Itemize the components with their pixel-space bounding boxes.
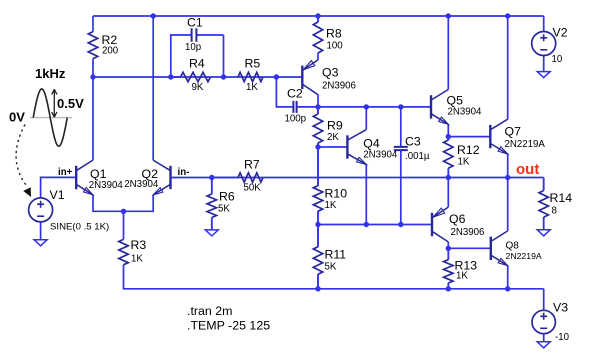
model of Q7 (505, 139, 546, 150)
model of Q5 (448, 107, 483, 118)
net label in- (178, 167, 190, 178)
svg-text:R5: R5 (245, 57, 261, 71)
value of R14 (552, 206, 557, 217)
capacitor C1 (192, 28, 197, 42)
resistor R5 (238, 72, 263, 81)
capacitor C2 (293, 101, 296, 113)
wire V2 leads (543, 16, 545, 72)
amplitude arrow 0.5V (52, 89, 57, 117)
resistor R8 (313, 16, 322, 53)
svg-text:1K: 1K (131, 254, 143, 265)
svg-text:R4: R4 (189, 57, 205, 71)
wire C3 leads (400, 107, 402, 225)
wire R9 leads (317, 107, 319, 147)
voltage source V2 (532, 32, 556, 56)
wire R11 leads (317, 225, 319, 289)
wire Q7 base (448, 136, 490, 138)
svg-text:50K: 50K (244, 183, 262, 194)
svg-text:.tran 2m: .tran 2m (187, 304, 232, 318)
label R3 (131, 238, 147, 252)
svg-text:out: out (516, 161, 539, 178)
wire Q8 collector to out (507, 178, 509, 231)
resistor R10 (313, 147, 322, 225)
model of Q2 (124, 179, 159, 190)
wire Q2 emitter to tail node (124, 195, 154, 211)
junction node R9-R10-Q4b (315, 144, 320, 149)
svg-text:10: 10 (552, 54, 563, 65)
junction node Q8e-bottom (505, 286, 510, 291)
resistor R12 (444, 137, 453, 178)
ground at R14 (537, 230, 550, 236)
svg-text:R6: R6 (219, 190, 235, 204)
value of R4 (192, 82, 204, 93)
wire Q3 emitter to R8 (317, 53, 319, 60)
voltage source V3 (532, 310, 555, 333)
wire R10 leads (317, 147, 319, 225)
svg-text:0.5V: 0.5V (57, 96, 84, 111)
wire Q6 emitter to out (447, 178, 449, 208)
wire bottom rail (124, 265, 544, 289)
svg-text:R12: R12 (457, 143, 480, 157)
wire Q6 collector (447, 242, 449, 248)
wire bias node row (318, 224, 432, 226)
wire Q4 emitter (365, 164, 367, 224)
svg-text:C2: C2 (287, 87, 303, 101)
wire R6 leads (211, 178, 213, 230)
junction node C3-bias (398, 222, 403, 227)
ground at V3 (537, 342, 550, 348)
net label out (516, 161, 539, 178)
sine zero axis line (30, 117, 72, 119)
label C3 (405, 135, 421, 149)
capacitor C3 (394, 147, 408, 150)
label Q2 (142, 167, 159, 181)
annotation 1kHz (35, 66, 66, 81)
wire R8 top lead (317, 16, 319, 22)
annotation 0.5V (57, 96, 84, 111)
label R12 (457, 143, 480, 157)
svg-text:.TEMP -25 125: .TEMP -25 125 (187, 319, 270, 333)
svg-text:8: 8 (552, 206, 557, 217)
value of R3 (131, 254, 143, 265)
svg-text:.001µ: .001µ (405, 151, 430, 162)
label Q6 (449, 212, 466, 226)
wire V3 leads (543, 289, 545, 342)
svg-text:2N3904: 2N3904 (363, 150, 398, 161)
svg-text:R10: R10 (325, 187, 348, 201)
junction node out-Q7e-Q8c (505, 175, 510, 180)
value of V2 (552, 54, 563, 65)
svg-text:R11: R11 (325, 248, 347, 262)
resistor R7 (212, 173, 263, 182)
ground at R6 (205, 230, 218, 236)
pnp transistor Q6 (432, 207, 448, 242)
value of R2 (102, 46, 119, 57)
label R11 (325, 248, 347, 262)
wire R14 branch (543, 178, 545, 230)
svg-text:R7: R7 (244, 158, 260, 172)
junction node in--R6 (209, 175, 214, 180)
wire Q4 base (318, 146, 347, 148)
svg-text:100p: 100p (285, 114, 307, 125)
model of Q6 (451, 227, 485, 238)
label C1 (187, 16, 203, 30)
svg-text:Q7: Q7 (505, 125, 522, 139)
wire row2 to Q5 base (297, 106, 431, 108)
svg-text:5K: 5K (218, 204, 230, 215)
svg-text:R8: R8 (326, 27, 342, 41)
svg-text:2K: 2K (327, 132, 339, 143)
value of R7 (244, 183, 262, 194)
value of R11 (325, 262, 337, 273)
svg-text:V2: V2 (553, 26, 568, 40)
model of Q4 (363, 150, 398, 161)
model of Q8 (506, 251, 542, 261)
svg-text:2N3904: 2N3904 (124, 179, 159, 190)
svg-text:9K: 9K (192, 82, 204, 93)
svg-text:in-: in- (178, 167, 190, 178)
junction node tail-R3 (121, 209, 126, 214)
value of C1 (185, 42, 201, 53)
label R7 (244, 158, 260, 172)
svg-text:2N2219A: 2N2219A (505, 139, 546, 150)
value of R6 (218, 204, 230, 215)
wire out row (171, 177, 544, 179)
spice directive .TEMP (187, 319, 270, 333)
value of C3 (405, 151, 430, 162)
resistor R3 (119, 211, 128, 264)
label Q5 (447, 94, 464, 108)
npn transistor Q4 (347, 130, 366, 165)
label V1 (50, 188, 65, 202)
resistor R9 (313, 107, 322, 147)
svg-text:SINE(0 .5 1K): SINE(0 .5 1K) (50, 222, 109, 233)
wire Q7 collector to rail (507, 16, 509, 119)
junction node R11-bottom (315, 286, 320, 291)
npn transistor Q1 (76, 160, 93, 195)
svg-text:2N3906: 2N3906 (322, 81, 356, 92)
resistor R14 (539, 178, 548, 230)
svg-text:C1: C1 (187, 16, 203, 30)
resistor R13 (444, 248, 453, 288)
value of V1 (50, 222, 109, 233)
svg-text:2N3906: 2N3906 (451, 227, 485, 238)
label Q8 (506, 241, 520, 252)
svg-text:Q8: Q8 (506, 241, 520, 252)
svg-text:V3: V3 (553, 301, 568, 315)
svg-text:200: 200 (102, 46, 119, 57)
pnp transistor Q3 (302, 60, 318, 95)
svg-text:-10: -10 (555, 332, 570, 343)
label R10 (325, 187, 348, 201)
junction node rail-Q2c (151, 13, 156, 18)
junction node C1R-R5 (221, 74, 226, 79)
wire V1 to in+ node (41, 177, 77, 198)
svg-text:5K: 5K (325, 262, 337, 273)
value of R8 (327, 41, 344, 52)
value of R9 (327, 132, 339, 143)
junction node out-R12-Q6e (446, 175, 451, 180)
junction node R5-C2-Q3b (274, 74, 279, 79)
label Q1 (90, 167, 107, 181)
svg-text:in+: in+ (58, 167, 73, 178)
ground at V2 (537, 72, 550, 78)
wire C2 left branch (276, 77, 293, 107)
npn transistor Q5 (431, 90, 448, 125)
resistor R4 (171, 72, 211, 81)
voltage source V1 (29, 198, 53, 222)
wire Q4 collector (365, 107, 367, 130)
svg-text:1K: 1K (456, 271, 468, 282)
junction node rail-R8 (315, 13, 320, 18)
label R9 (327, 119, 343, 133)
wire Q1 emitter to tail node (93, 195, 124, 211)
spice directive .tran (187, 304, 232, 318)
label Q7 (505, 125, 522, 139)
npn transistor Q8 (491, 231, 508, 266)
junction node rail-Q7c (505, 13, 510, 18)
junction node Q4c-row2 (364, 104, 369, 109)
value of R12 (458, 157, 470, 168)
junction node Q6c-R13-Q8b (446, 246, 451, 251)
label R2 (102, 33, 118, 47)
label R14 (550, 191, 573, 205)
dashed arrow to V1 (16, 125, 30, 197)
svg-text:1K: 1K (458, 157, 470, 168)
label R5 (245, 57, 261, 71)
wire V1 bottom lead (40, 222, 42, 240)
label Q4 (363, 137, 380, 151)
value of R13 (456, 271, 468, 282)
value of V3 (555, 332, 570, 343)
svg-text:R3: R3 (131, 238, 147, 252)
svg-text:Q4: Q4 (363, 137, 380, 151)
junction node rail-Q5c (446, 13, 451, 18)
resistor R11 (313, 225, 322, 289)
svg-text:Q3: Q3 (322, 66, 339, 80)
resistor R6 (207, 178, 216, 230)
svg-text:100: 100 (327, 41, 344, 52)
ground at V1 (34, 240, 47, 246)
value of C2 (285, 114, 307, 125)
svg-text:1K: 1K (246, 82, 258, 93)
svg-text:Q6: Q6 (449, 212, 466, 226)
label V2 (553, 26, 568, 40)
svg-text:1kHz: 1kHz (35, 66, 66, 81)
svg-text:2N3904: 2N3904 (448, 107, 483, 118)
svg-text:10p: 10p (185, 42, 201, 53)
wire Q3 collector (317, 95, 319, 107)
wire R13 leads (447, 248, 449, 288)
label C2 (287, 87, 303, 101)
annotation 0V (9, 110, 25, 125)
wire Q1 collector (92, 77, 94, 160)
model of Q1 (89, 180, 124, 191)
svg-text:V1: V1 (50, 188, 65, 202)
junction node R2-Q1c (90, 74, 95, 79)
svg-text:1K: 1K (325, 200, 337, 211)
wire Q7 emitter to out (507, 154, 509, 178)
wire Q8 emitter (507, 266, 509, 289)
label R8 (326, 27, 342, 41)
svg-text:Q5: Q5 (447, 94, 464, 108)
wire top supply rail (93, 15, 544, 17)
label R6 (219, 190, 235, 204)
wire Q8 base (448, 247, 491, 249)
junction node C3-row2 (398, 104, 403, 109)
model of Q3 (322, 81, 356, 92)
junction node R10-R11 (315, 222, 320, 227)
value of R5 (246, 82, 258, 93)
label R4 (189, 57, 205, 71)
wire R12 leads (447, 137, 449, 178)
junction node C1L-R4 (168, 74, 173, 79)
wire Q5 emitter (447, 124, 449, 136)
npn transistor Q2 (153, 160, 170, 195)
sine waveform (33, 89, 67, 146)
junction node Q4e-bias (364, 222, 369, 227)
label V3 (553, 301, 568, 315)
svg-text:R9: R9 (327, 119, 343, 133)
svg-text:2N3904: 2N3904 (89, 180, 124, 191)
wire Q2 collector to rail (152, 16, 154, 160)
resistor R2 (88, 16, 97, 77)
value of R10 (325, 200, 337, 211)
npn transistor Q7 (490, 119, 507, 154)
net label in+ (58, 167, 73, 178)
junction node R13-bottom (446, 286, 451, 291)
junction node Q3c-R9 (315, 104, 320, 109)
wire row1 segments (93, 76, 302, 78)
svg-text:C3: C3 (405, 135, 421, 149)
svg-text:2N2219A: 2N2219A (506, 251, 542, 261)
svg-text:R14: R14 (550, 191, 573, 205)
label R13 (455, 259, 478, 273)
svg-text:0V: 0V (9, 110, 25, 125)
label Q3 (322, 66, 339, 80)
wire Q5 collector to rail (447, 16, 449, 90)
junction node Q5e-R12-Q7b (446, 134, 451, 139)
wire C1 loop (171, 35, 224, 77)
